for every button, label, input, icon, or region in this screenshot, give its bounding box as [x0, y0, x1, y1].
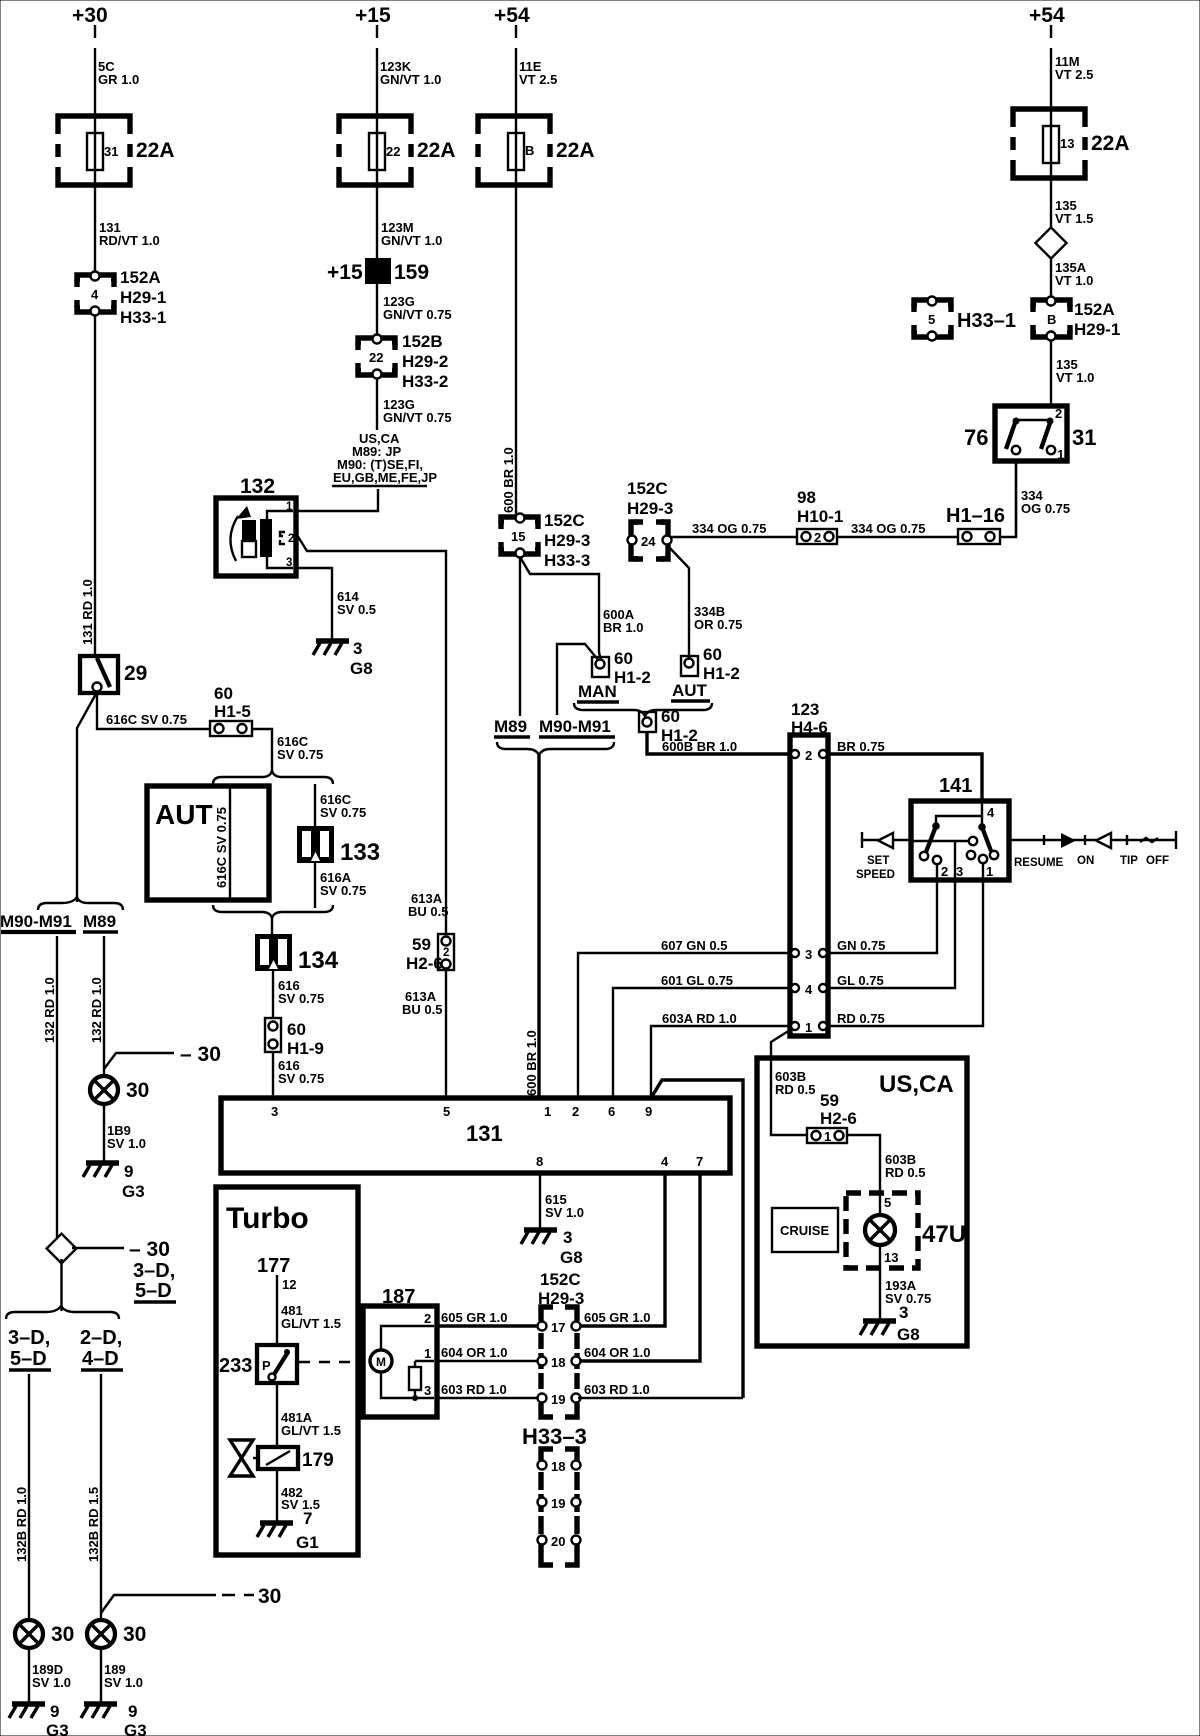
lamp 30 (2-D,4-D) [87, 1620, 146, 1648]
connector 152A pin B (H29-1) [1033, 297, 1120, 341]
stalk travel line left (SET SPEED) [856, 832, 968, 881]
svg-text:ON: ON [1077, 855, 1094, 867]
svg-text:VT 2.5: VT 2.5 [1055, 67, 1093, 82]
svg-text:603 RD 1.0: 603 RD 1.0 [441, 1382, 507, 1397]
label M89 (under pin 15) [494, 717, 530, 737]
wire 603B RD 0.5 from 123 pin 1 into US,CA box [771, 1030, 807, 1135]
svg-text:22A: 22A [417, 139, 456, 162]
svg-text:8: 8 [536, 1154, 543, 1169]
svg-text:EU,GB,ME,FE,JP: EU,GB,ME,FE,JP [333, 470, 437, 485]
brace joining MAN/AUT [574, 703, 712, 716]
svg-text:134: 134 [298, 947, 339, 974]
wire label 604 OR 1.0 (right) [584, 1345, 651, 1360]
svg-text:VT 1.0: VT 1.0 [1056, 370, 1094, 385]
svg-text:CRUISE: CRUISE [780, 1223, 829, 1238]
svg-text:3: 3 [271, 1104, 278, 1119]
svg-text:18: 18 [551, 1459, 565, 1474]
wire 481A GL/VT 1.5 [277, 1383, 341, 1447]
svg-text:152C: 152C [540, 1270, 581, 1289]
wire label 603B RD 0.5 (upper) [775, 1069, 815, 1097]
svg-text:G3: G3 [124, 1721, 147, 1736]
AUT box (automatic transmission variant) [147, 786, 269, 900]
relay 76 / 31 [964, 406, 1096, 462]
svg-text:– 30: – 30 [180, 1043, 221, 1066]
node -30 dashed tap [101, 1585, 281, 1613]
wire 123M GN/VT 1.0 [377, 185, 442, 258]
svg-text:9: 9 [128, 1702, 137, 1721]
svg-text:5: 5 [443, 1104, 450, 1119]
svg-text:604 OR 1.0: 604 OR 1.0 [584, 1345, 651, 1360]
node +54 supply (right) [1029, 4, 1065, 27]
svg-text:H33-3: H33-3 [544, 551, 590, 570]
svg-text:5: 5 [884, 1195, 891, 1210]
solenoid valve 179 [230, 1440, 334, 1476]
wire 603B RD 0.5 from H2-6 to lamp 47U [847, 1135, 925, 1196]
svg-text:H1-2: H1-2 [703, 664, 740, 683]
svg-text:BR 1.0: BR 1.0 [603, 620, 643, 635]
svg-text:605 GR 1.0: 605 GR 1.0 [441, 1310, 508, 1325]
wire from 131 pin 7 to 152C pin 18 (604) [578, 1173, 700, 1361]
svg-text:SV 0.75: SV 0.75 [278, 1071, 324, 1086]
svg-text:H1-2: H1-2 [614, 668, 651, 687]
connector 134 [255, 934, 339, 974]
svg-text:1: 1 [986, 864, 993, 879]
svg-text:Turbo: Turbo [226, 1202, 309, 1235]
switch 29 [80, 656, 147, 693]
svg-text:59: 59 [412, 935, 431, 954]
node +30 supply [72, 4, 108, 27]
svg-text:132 RD 1.0: 132 RD 1.0 [42, 977, 57, 1043]
lamp 30 (M89) [90, 1076, 149, 1104]
ground 9 G3 (M89 lamp) [83, 1162, 145, 1201]
svg-text:605 GR 1.0: 605 GR 1.0 [584, 1310, 651, 1325]
svg-text:9: 9 [50, 1702, 59, 1721]
svg-text:141: 141 [939, 775, 972, 797]
svg-text:SV 1.0: SV 1.0 [104, 1675, 143, 1690]
svg-text:M90-M91: M90-M91 [0, 912, 72, 931]
svg-text:187: 187 [382, 1286, 415, 1308]
svg-text:2: 2 [572, 1104, 579, 1119]
svg-text:+15: +15 [327, 261, 363, 284]
svg-text:132 RD 1.0: 132 RD 1.0 [89, 977, 104, 1043]
svg-text:H2-6: H2-6 [820, 1109, 857, 1128]
svg-text:OG 0.75: OG 0.75 [1021, 501, 1070, 516]
label AUT [671, 681, 710, 701]
wire 334B OR 0.75 from pin 24 to AUT connector [667, 545, 742, 658]
svg-text:12: 12 [282, 1277, 296, 1292]
splice diamond [1035, 227, 1066, 258]
wire from 132 pin 2 to connector 59 H2-6 [297, 535, 446, 934]
svg-text:SV 0.75: SV 0.75 [277, 747, 323, 762]
svg-text:+15: +15 [355, 4, 391, 27]
svg-text:59: 59 [820, 1091, 839, 1110]
svg-text:GN 0.75: GN 0.75 [837, 938, 885, 953]
Turbo variant box [216, 1187, 358, 1555]
connector 60 H1-5 [210, 684, 252, 736]
svg-text:30: 30 [123, 1623, 146, 1646]
svg-text:GN/VT 1.0: GN/VT 1.0 [381, 233, 442, 248]
svg-text:RD 0.5: RD 0.5 [885, 1165, 925, 1180]
wire 135 VT 1.5 [1051, 178, 1093, 232]
connector 152C pin 15 (H29-3/H33-3) [501, 511, 590, 570]
wire 334 OG 0.75 from H1-16 up to relay 76/31 [1000, 463, 1070, 537]
svg-text:GN/VT 0.75: GN/VT 0.75 [383, 307, 452, 322]
wire 334 OG 0.75 from pin 24 to 98 H10-1 [671, 521, 797, 537]
fuse 31 (22A) [58, 116, 175, 186]
svg-text:SPEED: SPEED [856, 869, 895, 881]
label 3-D, 5-D [8, 1327, 51, 1370]
svg-text:VT 1.5: VT 1.5 [1055, 211, 1093, 226]
svg-text:60: 60 [614, 649, 633, 668]
svg-text:1: 1 [1057, 447, 1064, 462]
svg-text:H1-9: H1-9 [287, 1039, 324, 1058]
svg-text:177: 177 [257, 1255, 290, 1277]
svg-text:H33–1: H33–1 [957, 310, 1016, 332]
connector 59 H2-6 (US,CA) [807, 1091, 857, 1144]
lamp 30 (3-D,5-D) [15, 1620, 74, 1648]
wire GN 0.75 from 123 pin 3 to 141 pin 2 [828, 880, 937, 953]
connector 152C H29-3 (pins 17/18/19) [538, 1270, 585, 1417]
svg-text:17: 17 [551, 1320, 565, 1335]
wire 607 GN 0.5 from 123 pin 3 to 131 pin 2 [578, 938, 790, 1098]
svg-text:7: 7 [303, 1509, 312, 1528]
svg-text:132B RD 1.5: 132B RD 1.5 [86, 1487, 101, 1562]
svg-text:RD/VT 1.0: RD/VT 1.0 [99, 233, 160, 248]
svg-text:M89: M89 [494, 717, 527, 736]
wire GL 0.75 from 123 pin 4 to 141 pin 3 [828, 880, 955, 988]
svg-text:H1-5: H1-5 [214, 702, 251, 721]
connector 133 [297, 826, 380, 866]
svg-text:P: P [262, 1358, 271, 1373]
svg-text:G8: G8 [560, 1248, 583, 1267]
svg-text:3: 3 [899, 1303, 908, 1322]
svg-text:4–D: 4–D [82, 1348, 119, 1370]
fuse B (22A) [478, 116, 595, 186]
svg-text:GL/VT 1.5: GL/VT 1.5 [281, 1316, 341, 1331]
servo motor unit 187 [363, 1286, 437, 1417]
wire 613A BU 0.5 from H2-6 to 131 pin 5 [402, 970, 446, 1098]
svg-text:601 GL 0.75: 601 GL 0.75 [661, 973, 733, 988]
svg-text:GN/VT 0.75: GN/VT 0.75 [383, 410, 452, 425]
wire RD 0.75 from 123 pin 1 to 141 pin 1 [828, 880, 983, 1026]
svg-text:22: 22 [369, 350, 383, 365]
label CRUISE [772, 1208, 838, 1252]
svg-text:31: 31 [104, 144, 118, 159]
svg-text:GN/VT 1.0: GN/VT 1.0 [380, 72, 441, 87]
wire label 481 GL/VT 1.5 [281, 1303, 341, 1331]
wire from 131 pin 4 to 152C pin 17 (605) [578, 1173, 665, 1326]
brace over AUT / 133 alternatives [213, 771, 333, 784]
component 177 pin 12 [257, 1255, 296, 1345]
svg-text:76: 76 [964, 425, 988, 450]
svg-text:152C: 152C [627, 479, 668, 498]
connector 60 H1-2 (MAN) [592, 649, 651, 687]
svg-text:5: 5 [928, 312, 935, 327]
wire 604 OR 1.0 from 187 pin 1 to 152C pin 18 [437, 1345, 538, 1361]
svg-text:22A: 22A [556, 139, 595, 162]
svg-text:30: 30 [258, 1585, 281, 1608]
label M90-M91 [539, 717, 615, 737]
wire 189 SV 1.0 [101, 1648, 143, 1702]
wire 600 BR 1.0 down to 152C pin 15 [501, 185, 516, 517]
svg-text:22A: 22A [136, 139, 175, 162]
svg-text:603 RD 1.0: 603 RD 1.0 [584, 1382, 650, 1397]
svg-text:SET: SET [867, 855, 889, 867]
svg-text:B: B [1047, 312, 1056, 327]
connector 60 H1-2 (AUT) [681, 645, 740, 683]
svg-text:3: 3 [563, 1228, 572, 1247]
svg-text:2: 2 [1055, 406, 1062, 421]
switch 141 (cruise control stalk) [911, 775, 1009, 880]
wire 616C to connector 133 [315, 784, 366, 826]
svg-text:SV 0.75: SV 0.75 [320, 805, 366, 820]
stalk travel line right (RESUME ON TIP OFF) [1009, 831, 1176, 869]
ground 3 G8 (132) [313, 639, 373, 678]
svg-text:OFF: OFF [1146, 855, 1169, 867]
svg-text:VT 2.5: VT 2.5 [519, 72, 557, 87]
svg-text:H1–16: H1–16 [946, 505, 1005, 527]
wire below diamond [60, 1259, 62, 1311]
wire 132 RD 1.0 (M89 branch) [89, 936, 104, 1076]
svg-text:133: 133 [340, 839, 380, 866]
node -30 (3-D, 5-D) [72, 1238, 176, 1302]
svg-text:SV 1.0: SV 1.0 [32, 1675, 71, 1690]
wire label 605 GR 1.0 (right) [584, 1310, 651, 1325]
wire 615 SV 1.0 from 131 pin 8 to ground [540, 1173, 584, 1228]
svg-text:GL 0.75: GL 0.75 [837, 973, 884, 988]
wire 132B RD 1.5 [86, 1374, 101, 1620]
svg-text:22: 22 [386, 144, 400, 159]
svg-text:OR 0.75: OR 0.75 [694, 617, 742, 632]
svg-text:13: 13 [884, 1250, 898, 1265]
svg-text:616C SV 0.75: 616C SV 0.75 [214, 807, 229, 888]
lamp 47U (CRUISE indicator) [846, 1193, 966, 1268]
wire 334 OG 0.75 from H10-1 to H1-16 [837, 521, 958, 537]
svg-text:H2-6: H2-6 [406, 954, 443, 973]
wire 132B RD 1.0 [14, 1374, 29, 1620]
wire BR 0.75 from 123 pin 2 to 141 pin 4 [828, 739, 982, 801]
wire 603 RD 1.0 from 187 pin 3 to 152C pin 19 [437, 1382, 538, 1398]
svg-text:22A: 22A [1091, 132, 1130, 155]
wire 603A RD 1.0 from 123 pin 1 to 131 pin 9 [651, 1011, 790, 1098]
svg-text:G3: G3 [46, 1721, 69, 1736]
svg-text:+30: +30 [72, 4, 108, 27]
svg-text:19: 19 [551, 1392, 565, 1407]
US,CA variant box [757, 1058, 967, 1346]
svg-text:GR 1.0: GR 1.0 [98, 72, 139, 87]
node +54 supply (left) [494, 4, 530, 27]
svg-text:233: 233 [219, 1355, 252, 1377]
svg-text:3–D,: 3–D, [133, 1260, 175, 1282]
svg-text:H4-6: H4-6 [791, 718, 828, 737]
wire 131 RD 1.0 down to switch 29 [80, 315, 95, 656]
ground 9 G3 (lamp 3-D) [9, 1702, 69, 1736]
connector 152C pin 24 (H29-3) [627, 479, 673, 559]
svg-text:AUT: AUT [672, 681, 708, 700]
wire 11M to fuse 13 [1051, 25, 1093, 109]
wire relay to H1-16 (334 OG 0.75) [1015, 461, 1017, 537]
svg-text:1: 1 [805, 1020, 812, 1035]
svg-text:G8: G8 [897, 1325, 920, 1344]
label MAN [577, 682, 619, 702]
svg-text:B: B [525, 143, 534, 158]
svg-text:600 BR 1.0: 600 BR 1.0 [501, 447, 516, 513]
wire 132 RD 1.0 (M90-M91 branch) [42, 936, 57, 1238]
wire 135A VT 1.0 [1051, 259, 1093, 300]
wire label 613A BU 0.5 (above H2-6) [408, 891, 448, 919]
svg-text:VT 1.0: VT 1.0 [1055, 273, 1093, 288]
brace under AUT / 133 joining to 134 [213, 905, 333, 934]
svg-text:BU 0.5: BU 0.5 [402, 1002, 442, 1017]
svg-text:132: 132 [240, 475, 275, 498]
svg-text:RD 0.5: RD 0.5 [775, 1082, 815, 1097]
svg-text:60: 60 [661, 707, 680, 726]
svg-text:18: 18 [551, 1355, 565, 1370]
svg-text:24: 24 [641, 534, 656, 549]
svg-text:4: 4 [91, 287, 99, 302]
wire from M90-M91 label to MAN connector [557, 644, 599, 715]
svg-text:131: 131 [466, 1121, 503, 1146]
svg-text:2: 2 [805, 748, 812, 763]
ignition switch 132 [216, 475, 296, 576]
svg-text:604 OR 1.0: 604 OR 1.0 [441, 1345, 508, 1360]
connector H33-1 pin 5 (unconnected) [914, 297, 1016, 341]
svg-text:179: 179 [302, 1450, 334, 1471]
fuse 22 (22A) [339, 116, 456, 186]
svg-text:3–D,: 3–D, [8, 1327, 50, 1349]
svg-text:M90-M91: M90-M91 [539, 717, 611, 736]
ground 7 G1 (Turbo) [257, 1509, 319, 1552]
svg-text:3: 3 [956, 864, 963, 879]
wire 603 RD 1.0 from 152C pin 19 right [578, 1397, 743, 1399]
svg-text:G8: G8 [350, 659, 373, 678]
svg-text:3: 3 [424, 1383, 431, 1398]
svg-text:152A: 152A [1074, 300, 1115, 319]
svg-text:616C SV 0.75: 616C SV 0.75 [106, 712, 187, 727]
label M90-M91 [0, 912, 76, 932]
svg-text:RESUME: RESUME [1014, 857, 1064, 869]
svg-text:AUT: AUT [155, 799, 213, 830]
node -30 tap [104, 1043, 221, 1069]
pressure switch 233 [219, 1345, 297, 1383]
svg-text:RD 0.75: RD 0.75 [837, 1011, 885, 1026]
svg-text:US,CA: US,CA [879, 1071, 954, 1098]
svg-text:9: 9 [645, 1104, 652, 1119]
svg-text:131 RD 1.0: 131 RD 1.0 [80, 579, 95, 645]
wire 601 GL 0.75 from 123 pin 4 to 131 pin 6 [613, 973, 790, 1098]
svg-text:3: 3 [353, 639, 362, 658]
wire 600A BR 1.0 from pin 15 to MAN connector [520, 557, 643, 661]
svg-text:60: 60 [703, 645, 722, 664]
svg-text:SV 0.75: SV 0.75 [278, 991, 324, 1006]
svg-text:H33-1: H33-1 [120, 308, 166, 327]
svg-text:4: 4 [987, 805, 995, 820]
wire 600 BR 1.0 to 131 pin 1 [524, 754, 539, 1098]
wire 123G GN/VT 0.75 below 152B [377, 378, 452, 430]
svg-text:15: 15 [511, 529, 525, 544]
svg-text:GL/VT 1.5: GL/VT 1.5 [281, 1423, 341, 1438]
svg-text:6: 6 [608, 1104, 615, 1119]
wire 135 VT 1.0 to relay [1051, 340, 1094, 406]
wire (M89 variant) from pin 15 down [519, 557, 521, 716]
wire 189D SV 1.0 [29, 1648, 71, 1702]
svg-text:152A: 152A [120, 268, 161, 287]
wire 193A SV 0.75 to ground [880, 1268, 931, 1320]
svg-text:98: 98 [797, 488, 816, 507]
svg-text:5–D: 5–D [10, 1348, 47, 1370]
wire 605 GR 1.0 from 187 pin 2 to 152C pin 17 [437, 1310, 538, 1326]
svg-text:1: 1 [544, 1104, 551, 1119]
svg-text:M: M [376, 1355, 386, 1369]
svg-text:+54: +54 [1029, 4, 1065, 27]
svg-text:7: 7 [696, 1154, 703, 1169]
wire 616 SV 0.75 below 134 [273, 971, 324, 1018]
svg-text:H33-2: H33-2 [402, 372, 448, 391]
svg-text:60: 60 [214, 684, 233, 703]
wire from 132 pin 3 to ground G8 [296, 568, 376, 640]
svg-text:TIP: TIP [1120, 855, 1138, 867]
svg-text:G1: G1 [296, 1533, 319, 1552]
svg-text:H10-1: H10-1 [797, 507, 843, 526]
ground 3 G8 (47U) [860, 1303, 920, 1344]
svg-text:600 BR 1.0: 600 BR 1.0 [524, 1030, 539, 1096]
wire label 5C GR 1.0 [98, 59, 139, 87]
wire from 29 to M90-M91/M89 brace [77, 692, 97, 902]
svg-text:29: 29 [124, 662, 147, 685]
svg-text:132B RD 1.0: 132B RD 1.0 [14, 1487, 29, 1562]
svg-text:13: 13 [1060, 136, 1074, 151]
svg-text:30: 30 [51, 1623, 74, 1646]
connector H1-16 [946, 505, 1005, 544]
svg-text:2: 2 [424, 1311, 431, 1326]
splice diamond (M90-M91 wire) [47, 1234, 77, 1264]
market note US,CA / M89 / M90 [332, 431, 437, 486]
svg-text:47U: 47U [922, 1221, 966, 1248]
wire 189 SV 1.0 [104, 1104, 146, 1161]
svg-text:334 OG 0.75: 334 OG 0.75 [851, 521, 925, 536]
connector H33-3 (pins 18/19/20, unconnected) [522, 1424, 587, 1565]
wire 616A SV 0.75 below 133 [315, 863, 366, 908]
svg-text:2–D,: 2–D, [80, 1327, 122, 1349]
wire 616C from H1-5 down to brace [252, 729, 323, 772]
ground 3 G8 (131 pin 8) [521, 1228, 583, 1267]
wire 11E to fuse B [516, 25, 557, 115]
connector 152A pin 4 (H29-1/H33-1) [77, 268, 166, 327]
wire 482 SV 1.5 to ground [277, 1469, 320, 1522]
ground 9 G3 (lamp 2-D) [81, 1702, 147, 1736]
svg-text:4: 4 [805, 982, 813, 997]
svg-text:3: 3 [286, 557, 292, 569]
connector 98 H10-1 [797, 488, 843, 545]
svg-text:159: 159 [394, 261, 429, 284]
wire from note to ignition switch 132 pin 1 [296, 489, 378, 511]
wire 616 SV 0.75 to 131 pin 3 [273, 1052, 324, 1098]
fuse 13 (22A) [1013, 109, 1130, 179]
connector 60 H1-9 [265, 1018, 324, 1058]
svg-text:H33–3: H33–3 [522, 1424, 587, 1449]
svg-text:2: 2 [443, 947, 449, 959]
brace M90-M91 / M89 split [38, 897, 123, 910]
svg-text:60: 60 [287, 1020, 306, 1039]
label M89 [83, 912, 118, 932]
svg-text:123: 123 [791, 700, 819, 719]
svg-text:2: 2 [288, 533, 294, 545]
wire 123G GN/VT 0.75 to 152B [377, 284, 452, 338]
wire 5C from +30 to fuse 31 [94, 25, 96, 115]
svg-text:+54: +54 [494, 4, 530, 27]
svg-text:1: 1 [286, 501, 293, 513]
svg-text:SV 0.5: SV 0.5 [337, 602, 376, 617]
